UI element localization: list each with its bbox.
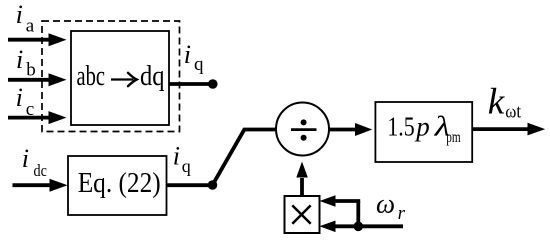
arrow multiplier to divider: [296, 162, 308, 197]
arrow into multiplier bottom input: [320, 221, 404, 233]
svg-text:a: a: [26, 16, 35, 37]
svg-text:i: i: [16, 83, 23, 112]
svg-text:q: q: [182, 156, 191, 176]
label i_b: [16, 45, 36, 81]
svg-text:r: r: [398, 203, 406, 224]
svg-text:k: k: [488, 82, 505, 123]
svg-text:i: i: [173, 141, 180, 170]
svg-text:i: i: [22, 144, 29, 173]
output arrow k_wt: [472, 123, 545, 136]
multiplier box X: [285, 196, 320, 233]
arrow into multiplier top input: [320, 195, 361, 207]
svg-text:dc: dc: [34, 161, 48, 180]
svg-text:abc: abc: [77, 61, 106, 92]
wire i_q from abc->dq: [169, 82, 209, 86]
input arrow i_b: [8, 73, 67, 86]
label i_dc: [22, 144, 47, 180]
svg-text:Eq. (22): Eq. (22): [78, 168, 161, 199]
node dot lower i_q: [208, 180, 218, 190]
svg-text:pm: pm: [446, 129, 460, 146]
input arrow i_c: [8, 111, 67, 124]
input arrow i_a: [8, 33, 67, 46]
label omega_r: [376, 189, 406, 225]
svg-text:dq: dq: [140, 61, 165, 92]
node dot omega_r branch: [354, 222, 364, 232]
wire vertical branch: [356, 201, 360, 226]
svg-text:1.5: 1.5: [387, 111, 414, 141]
label i_q (lower): [173, 141, 191, 175]
arrow divider to gain block: [329, 123, 372, 136]
svg-text:q: q: [194, 54, 204, 75]
label i_c: [16, 83, 35, 120]
svg-text:ω: ω: [376, 189, 395, 219]
node dot top i_q: [208, 79, 218, 89]
label i_q (top): [184, 40, 204, 75]
divider circle U-div: [276, 103, 329, 156]
dashed box (abc frame): [42, 21, 180, 132]
svg-text:c: c: [26, 99, 34, 120]
svg-text:i: i: [184, 40, 191, 69]
block 1.5 p lambda_pm: [375, 102, 472, 162]
block abc->dq: [71, 31, 169, 125]
wire i_q from Eq.(22): [167, 183, 210, 187]
svg-text:i: i: [16, 45, 23, 74]
block Eq. (22): [68, 156, 167, 215]
label k_wt: [488, 82, 522, 123]
input arrow i_dc: [13, 179, 68, 192]
wire diagonal to divider: [213, 130, 277, 186]
svg-text:p: p: [414, 111, 430, 141]
label i_a: [16, 0, 35, 37]
svg-text:b: b: [26, 60, 36, 81]
svg-text:ωt: ωt: [505, 101, 521, 122]
svg-text:i: i: [16, 0, 23, 29]
